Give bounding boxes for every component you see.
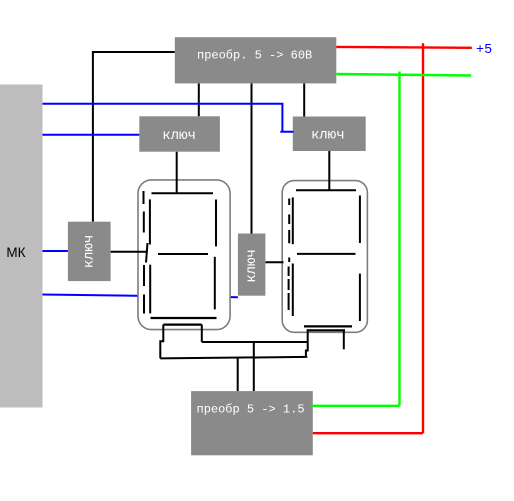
DISP2 segment D (bottom): [304, 325, 352, 327]
svg-text:ключ: ключ: [162, 128, 196, 144]
block key K2: [293, 117, 366, 152]
wire: red vertical +5 rail down to converter 1.5: [313, 43, 423, 433]
DISP1 segment F (top left, sketchy strokes): [144, 191, 150, 245]
svg-text:преобр. 5 -> 60В: преобр. 5 -> 60В: [197, 49, 312, 63]
wire: black from converter left edge going down to left key: [93, 52, 175, 222]
wire: upper bus rail: [202, 341, 307, 343]
DISP1 segment A (top): [152, 192, 214, 194]
wire: DISP2 right pin stub: [343, 329, 345, 349]
block U1: converter 5 to 60V: [175, 37, 336, 83]
wire: blue MK output 2 to key K1: [43, 134, 140, 136]
DISP2 segment A (top): [296, 189, 356, 191]
wire: DISP1 common pin bar: [163, 324, 202, 326]
block MK (microcontroller): [0, 85, 43, 408]
wire: tap from lower bus down to converter 1.5: [237, 358, 239, 391]
display DISP2 (right seven-segment indicator outline): [282, 181, 367, 333]
block key K3 (left vertical): [68, 222, 111, 281]
DISP1 segment D (bottom): [151, 317, 217, 319]
DISP1 segment C (bottom right): [214, 257, 216, 310]
DISP1 segment G (middle): [158, 253, 208, 255]
DISP2 segment G (middle): [297, 253, 356, 255]
wire: DISP2 common pin bar: [307, 329, 345, 331]
block U2: converter 5 to 1.5: [191, 391, 313, 455]
svg-text:преобр 5 -> 1.5: преобр 5 -> 1.5: [197, 403, 305, 417]
svg-text:ключ: ключ: [244, 249, 260, 283]
wire: blue MK output 4 (passes under left display): [43, 295, 238, 298]
wire: DISP2 left pin down with jog to lower bus: [306, 329, 308, 357]
svg-text:МК: МК: [6, 245, 25, 260]
wire: DISP1 right pin down to upper bus: [201, 325, 203, 342]
DISP1 segment E (bottom left, sketchy strokes): [144, 243, 150, 314]
svg-text:ключ: ключ: [82, 235, 98, 269]
wire: converter bottom pin 1 to key K1: [198, 83, 200, 116]
wire: green vertical rail down to converter 1.5: [311, 72, 400, 406]
wire: key K2 output down into DISP2 segment A: [328, 151, 330, 191]
DISP2 segment C (bottom right): [359, 274, 361, 321]
wire: DISP1 left pin down with jog to lower bus: [160, 325, 163, 359]
wire: middle vertical key output to DISP2 left side: [265, 261, 283, 263]
wire: converter bottom pin 3 to key K2: [303, 83, 305, 116]
svg-text:ключ: ключ: [311, 128, 345, 144]
wire: key K1 output down into DISP1 segment A: [176, 152, 178, 193]
display DISP1 (left seven-segment indicator outline): [138, 180, 230, 330]
wire: tap from upper bus down to converter 1.5: [253, 342, 255, 391]
wire: red +5 feed from converter 60V: [336, 46, 472, 49]
wire: converter bottom pin 2 down to middle vertical key: [251, 83, 253, 233]
svg-text:+5: +5: [476, 43, 492, 58]
wire: blue MK output 3 to left vertical key: [43, 250, 68, 252]
wire: green line from converter 60V: [336, 74, 471, 76]
wire: lower bus rail to right display pin: [160, 357, 307, 359]
wire: blue MK output 1 to key K2: [43, 104, 294, 132]
DISP1 segment B (top right): [215, 200, 217, 247]
block key K4 (middle vertical): [238, 234, 266, 296]
DISP2 segment F (top left, sketchy strokes): [289, 197, 293, 244]
wire: left vertical key output to DISP1 segment G: [111, 251, 147, 253]
block key K1: [139, 116, 220, 151]
DISP2 segment B (top right): [359, 196, 361, 244]
DISP2 segment E (bottom left, sketchy strokes): [289, 258, 293, 317]
